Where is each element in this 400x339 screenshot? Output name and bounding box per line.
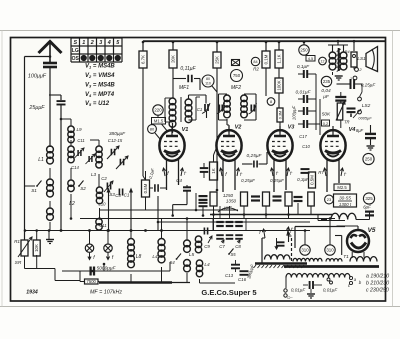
- svg-text:M2.5: M2.5: [337, 185, 347, 190]
- svg-text:L2: L2: [69, 201, 75, 207]
- svg-text:0,11μF: 0,11μF: [180, 66, 196, 72]
- svg-text:4.5: 4.5: [308, 56, 314, 61]
- svg-text:LG: LG: [72, 48, 79, 54]
- svg-text:LS1: LS1: [357, 56, 366, 61]
- svg-text:V3: V3: [288, 125, 296, 131]
- svg-text:0005μF: 0005μF: [358, 116, 372, 121]
- svg-text:7500: 7500: [87, 279, 97, 284]
- svg-text:L8: L8: [136, 254, 142, 260]
- svg-text:110: 110: [205, 82, 211, 86]
- svg-text:0.1M: 0.1M: [263, 54, 268, 64]
- svg-text:25K: 25K: [214, 56, 219, 64]
- svg-text:0,25μF: 0,25μF: [270, 178, 284, 183]
- svg-text:C3: C3: [115, 193, 121, 198]
- svg-text:1.1K: 1.1K: [276, 54, 281, 63]
- svg-text:S1: S1: [31, 188, 37, 193]
- svg-text:LS2: LS2: [362, 103, 371, 109]
- svg-text:100μμF: 100μμF: [292, 105, 297, 120]
- svg-text:C9: C9: [204, 244, 210, 249]
- svg-text:0,01μF: 0,01μF: [296, 90, 312, 96]
- svg-text:R7: R7: [318, 170, 324, 175]
- svg-text:1250: 1250: [223, 193, 234, 198]
- svg-text:80: 80: [206, 77, 210, 81]
- svg-text:TR: TR: [344, 120, 350, 125]
- svg-text:1934: 1934: [26, 290, 38, 296]
- svg-text:12: 12: [321, 59, 325, 63]
- svg-text:80: 80: [150, 126, 155, 131]
- svg-text:C1: C1: [124, 193, 130, 198]
- svg-text:310: 310: [301, 248, 309, 253]
- svg-text:10K: 10K: [34, 244, 39, 252]
- svg-text:MF = 107kHz: MF = 107kHz: [90, 290, 122, 296]
- svg-text:L3: L3: [91, 172, 97, 177]
- svg-text:S2: S2: [80, 186, 86, 191]
- svg-text:f′: f′: [240, 172, 242, 177]
- svg-text:V4 = MPT4: V4 = MPT4: [85, 92, 115, 98]
- svg-text:MF2: MF2: [231, 85, 241, 91]
- svg-text:R4: R4: [344, 49, 350, 54]
- svg-text:250: 250: [300, 48, 308, 53]
- svg-text:T1: T1: [343, 254, 349, 260]
- svg-text:0,01μF: 0,01μF: [323, 288, 338, 293]
- svg-text:C12-15: C12-15: [108, 138, 123, 143]
- svg-text:4: 4: [107, 40, 111, 46]
- svg-text:3: 3: [99, 40, 102, 46]
- svg-text:f′: f′: [290, 229, 292, 234]
- svg-text:C4: C4: [176, 178, 182, 183]
- svg-text:V1: V1: [182, 127, 189, 133]
- svg-text:R1: R1: [14, 239, 20, 244]
- svg-text:G.E.Co.Super 5: G.E.Co.Super 5: [201, 288, 257, 297]
- svg-text:1300 t: 1300 t: [339, 202, 352, 207]
- svg-text:V1 = MS4B: V1 = MS4B: [85, 64, 115, 70]
- svg-text:6μF: 6μF: [363, 205, 371, 210]
- svg-text:1: 1: [82, 40, 85, 46]
- svg-text:O~: O~: [287, 295, 293, 300]
- svg-text:f′: f′: [276, 171, 278, 176]
- svg-text:S4: S4: [169, 260, 175, 265]
- svg-text:20K: 20K: [170, 55, 175, 63]
- svg-text:50K: 50K: [322, 112, 331, 118]
- svg-text:V3 = MS4B: V3 = MS4B: [85, 83, 115, 89]
- svg-text:0,01μF: 0,01μF: [291, 288, 306, 293]
- svg-text:c 230/250: c 230/250: [366, 288, 389, 294]
- svg-text:C7: C7: [219, 244, 225, 249]
- svg-text:S3: S3: [109, 192, 115, 197]
- svg-text:100μμF: 100μμF: [28, 74, 47, 80]
- svg-text:S: S: [73, 40, 77, 46]
- svg-text:V2: V2: [235, 125, 243, 131]
- svg-text:30-55: 30-55: [339, 196, 351, 201]
- svg-text:0,04: 0,04: [321, 88, 331, 94]
- svg-text:SR: SR: [15, 260, 22, 266]
- svg-text:μF: μF: [322, 94, 330, 100]
- svg-text:6.7K: 6.7K: [140, 55, 145, 64]
- svg-text:0,2: 0,2: [323, 121, 329, 126]
- svg-text:L5: L5: [189, 252, 195, 258]
- svg-text:MF1: MF1: [179, 85, 189, 91]
- svg-text:0,25μF: 0,25μF: [361, 83, 376, 88]
- svg-text:0,1μF: 0,1μF: [297, 64, 310, 70]
- svg-text:0,25μF: 0,25μF: [247, 153, 263, 159]
- svg-text:C1: C1: [197, 107, 202, 112]
- svg-text:0.5M: 0.5M: [143, 183, 148, 193]
- svg-text:0,3μF: 0,3μF: [297, 177, 310, 182]
- svg-text:C14: C14: [71, 165, 79, 170]
- svg-text:b 210/230: b 210/230: [366, 281, 389, 287]
- svg-text:325: 325: [365, 196, 373, 201]
- svg-text:f′: f′: [290, 171, 292, 176]
- svg-text:C17: C17: [299, 134, 307, 139]
- svg-text:V5 = U12: V5 = U12: [85, 101, 110, 107]
- svg-text:V5: V5: [368, 227, 376, 234]
- svg-text:OS: OS: [72, 56, 80, 62]
- svg-text:C11: C11: [77, 138, 84, 143]
- svg-text:8μF: 8μF: [356, 128, 364, 133]
- svg-text:0.5M: 0.5M: [309, 175, 314, 185]
- svg-text:250: 250: [365, 157, 373, 162]
- svg-text:L1: L1: [38, 157, 44, 163]
- svg-text:1350: 1350: [226, 199, 237, 204]
- svg-text:C13: C13: [225, 273, 234, 278]
- svg-text:C8: C8: [235, 244, 241, 249]
- svg-text:1K: 1K: [211, 168, 216, 173]
- svg-text:0,25μF: 0,25μF: [241, 178, 255, 183]
- svg-text:f′: f′: [344, 172, 346, 177]
- svg-text:L4: L4: [152, 254, 158, 260]
- svg-text:L9: L9: [76, 127, 82, 132]
- svg-text:f′: f′: [184, 171, 186, 176]
- svg-text:220: 220: [154, 108, 162, 113]
- svg-text:M1.5: M1.5: [154, 119, 164, 124]
- svg-text:25μμF: 25μμF: [28, 105, 45, 111]
- svg-text:23: 23: [327, 197, 332, 202]
- svg-text:235: 235: [323, 79, 331, 84]
- svg-text:0.3M: 0.3M: [278, 111, 282, 119]
- svg-text:100K: 100K: [276, 80, 281, 90]
- svg-text:C2: C2: [101, 176, 107, 181]
- svg-text:380μμF: 380μμF: [109, 131, 126, 137]
- svg-text:C16: C16: [238, 277, 247, 282]
- svg-text:750: 750: [233, 73, 241, 78]
- svg-text:84: 84: [253, 60, 257, 64]
- svg-text:V2 = VMS4: V2 = VMS4: [85, 73, 115, 79]
- svg-text:L10: L10: [99, 202, 107, 207]
- svg-text:8: 8: [270, 100, 272, 104]
- svg-text:S5: S5: [230, 252, 236, 257]
- svg-text:310: 310: [326, 248, 334, 253]
- svg-text:L4: L4: [204, 262, 210, 268]
- svg-text:R2: R2: [253, 67, 259, 72]
- svg-text:a 190/210: a 190/210: [366, 274, 389, 280]
- svg-text:C10: C10: [302, 144, 310, 149]
- svg-text:2: 2: [90, 40, 94, 46]
